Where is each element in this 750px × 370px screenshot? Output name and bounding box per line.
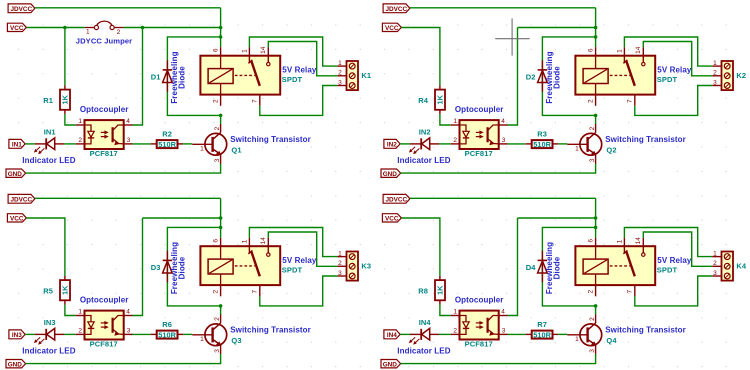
- svg-text:3: 3: [502, 328, 506, 335]
- svg-text:Switching Transistor: Switching Transistor: [230, 326, 311, 335]
- svg-text:Indicator LED: Indicator LED: [22, 156, 75, 165]
- svg-text:2: 2: [588, 99, 595, 103]
- svg-text:Diode: Diode: [178, 66, 187, 89]
- optocoupler phototransistor: [488, 316, 499, 336]
- transistor Q3: [192, 315, 226, 355]
- label SPDT: [657, 75, 678, 84]
- relay pin 1: [616, 238, 624, 247]
- svg-text:JDVCC: JDVCC: [10, 196, 32, 203]
- svg-text:14: 14: [260, 46, 267, 54]
- diode D3 freewheeling: [163, 251, 173, 282]
- transistor Q2 pin 3 (emitter): [589, 158, 596, 162]
- diode D2 freewheeling: [538, 60, 548, 91]
- resistor R3 510R: [526, 140, 559, 148]
- svg-text:6: 6: [588, 239, 595, 243]
- junction JDVCC tie: [219, 26, 223, 30]
- svg-text:PCF817: PCF817: [90, 149, 118, 158]
- optocoupler coupling arrows: [476, 322, 483, 329]
- note JDYCC Jumper: [76, 36, 132, 45]
- transistor Q2 pin 2 (collector): [589, 126, 596, 130]
- value 510R: [158, 330, 176, 339]
- global label IN1: [9, 139, 25, 148]
- note Optocoupler: [80, 296, 129, 305]
- value PCF817: [465, 149, 493, 158]
- relay pin 1: [241, 47, 249, 56]
- wire collector: [220, 115, 222, 124]
- jumper JDYCC pin 2: [110, 25, 123, 36]
- svg-text:VCC: VCC: [10, 25, 24, 32]
- wire collector: [595, 115, 597, 124]
- svg-text:3: 3: [127, 328, 131, 335]
- svg-text:7: 7: [627, 99, 634, 103]
- svg-text:2: 2: [589, 317, 596, 321]
- svg-text:1: 1: [78, 309, 82, 316]
- svg-text:Q1: Q1: [231, 145, 241, 154]
- svg-text:VCC: VCC: [385, 25, 399, 32]
- relay K4 body: [575, 246, 655, 285]
- svg-text:6: 6: [213, 239, 220, 243]
- svg-text:IN2: IN2: [419, 128, 431, 137]
- wire opto pin 3 to R: [133, 333, 151, 335]
- value 1K: [61, 94, 70, 104]
- label K3: [361, 262, 371, 271]
- svg-text:3: 3: [338, 270, 342, 277]
- wire relay pin 14 to K2.2: [643, 42, 712, 76]
- svg-text:IN2: IN2: [387, 142, 397, 149]
- junction coil / collector node: [219, 304, 223, 308]
- label SPDT: [657, 266, 678, 275]
- optocoupler internal LED: [85, 316, 95, 335]
- global label IN2: [384, 139, 400, 148]
- svg-text:SPDT: SPDT: [657, 266, 678, 275]
- wire R to opto pin 1: [440, 114, 451, 125]
- svg-text:K4: K4: [736, 262, 747, 271]
- svg-text:1: 1: [575, 146, 579, 153]
- note Freewheeling Diode: [545, 242, 562, 294]
- svg-text:SPDT: SPDT: [657, 75, 678, 84]
- svg-text:14: 14: [260, 237, 267, 245]
- wire JDVCC drop: [595, 8, 597, 47]
- svg-text:Switching Transistor: Switching Transistor: [605, 326, 686, 335]
- label R7: [537, 320, 547, 329]
- wire R to Q2 base: [558, 143, 567, 145]
- relay coil pin 6: [213, 47, 221, 56]
- wire R to Q1 base: [183, 143, 192, 145]
- svg-text:PCF817: PCF817: [465, 340, 493, 349]
- wire freewheeling diode loop: [167, 37, 220, 116]
- relay pin 7: [627, 95, 635, 106]
- wire relay pin 1 to K2.1: [624, 37, 712, 66]
- resistor R1 1K: [60, 86, 70, 115]
- svg-text:Optocoupler: Optocoupler: [80, 296, 129, 305]
- label R4: [418, 96, 429, 105]
- svg-text:IN3: IN3: [44, 318, 56, 327]
- wire relay pin 14 to K4.2: [643, 232, 712, 266]
- global label VCC: [7, 23, 26, 32]
- wire relay pin 7 to K2.3: [635, 86, 713, 116]
- wire opto pin 4 up: [133, 28, 143, 126]
- svg-text:7: 7: [627, 290, 634, 294]
- wire freewheeling diode loop: [542, 227, 595, 306]
- wire LED to opto pin 2: [439, 333, 451, 335]
- label R5: [43, 287, 53, 296]
- svg-text:3: 3: [338, 79, 342, 86]
- relay K2 body: [575, 56, 655, 95]
- resistor R4 1K: [435, 86, 445, 115]
- value 510R: [158, 140, 176, 149]
- optocoupler internal LED: [85, 125, 95, 144]
- relay pin 7: [252, 285, 260, 296]
- wire LED to opto pin 2: [439, 143, 451, 145]
- note Switching Transistor: [605, 326, 686, 335]
- relay pin 1: [241, 238, 249, 247]
- wire LED to opto pin 2: [64, 143, 76, 145]
- diode D1 freewheeling: [163, 60, 173, 91]
- wire relay pin 1 to K4.1: [624, 228, 712, 257]
- value 1K: [61, 285, 70, 295]
- label IN4 (LED refdes): [419, 318, 432, 327]
- label Q1: [231, 145, 241, 154]
- relay K1 body: [200, 56, 280, 95]
- relay coil pin 2: [588, 285, 596, 296]
- label Q3: [231, 336, 241, 345]
- wire JDVCC drop: [595, 198, 597, 237]
- wire JDVCC drop: [220, 8, 222, 47]
- wire opto VCC link: [143, 217, 221, 219]
- svg-text:R6: R6: [162, 320, 172, 329]
- svg-text:1: 1: [78, 118, 82, 125]
- svg-text:JDYCC Jumper: JDYCC Jumper: [76, 36, 132, 45]
- svg-text:2: 2: [214, 317, 221, 321]
- svg-text:GND: GND: [383, 361, 398, 368]
- optocoupler pin 1: [451, 118, 460, 125]
- wire opto pin 3 to R: [133, 143, 151, 145]
- relay coil pin 2: [588, 95, 596, 106]
- relay coil: [208, 246, 233, 285]
- svg-text:R2: R2: [162, 130, 172, 139]
- LED IN4 indicator: [410, 328, 439, 340]
- note Freewheeling Diode: [545, 51, 562, 103]
- svg-text:2: 2: [117, 29, 121, 36]
- value 1K: [436, 285, 445, 295]
- wire opto pin 4 up: [508, 218, 518, 316]
- optocoupler pin 3: [499, 328, 508, 335]
- label IN1 (LED refdes): [44, 128, 56, 137]
- relay dashed link: [610, 74, 630, 76]
- LED IN2 indicator: [410, 138, 439, 150]
- svg-text:2: 2: [713, 260, 717, 267]
- label R6: [162, 320, 172, 329]
- wire VCC rail right: [123, 27, 220, 29]
- svg-text:Q3: Q3: [231, 336, 241, 345]
- relay dashed link: [235, 265, 255, 267]
- svg-text:3: 3: [127, 137, 131, 144]
- optocoupler PCF817 body: [85, 120, 124, 149]
- svg-text:2: 2: [453, 328, 457, 335]
- LED emission arrows: [34, 147, 44, 154]
- junction relay coil node: [594, 35, 598, 39]
- wire R to Q3 base: [183, 333, 192, 335]
- wire LED to opto pin 2: [64, 333, 76, 335]
- svg-text:JDVCC: JDVCC: [385, 6, 407, 13]
- svg-text:SPDT: SPDT: [282, 266, 303, 275]
- optocoupler coupling arrows: [101, 322, 108, 329]
- optocoupler pin 1: [76, 309, 85, 316]
- connector K3: [337, 250, 358, 280]
- relay switch arm: [623, 56, 634, 86]
- svg-text:R8: R8: [418, 287, 428, 296]
- label K4: [736, 262, 747, 271]
- junction VCC / opto: [141, 26, 145, 30]
- svg-text:2: 2: [589, 126, 596, 130]
- svg-text:6: 6: [213, 48, 220, 52]
- svg-text:PCF817: PCF817: [90, 340, 118, 349]
- wire opto VCC link: [518, 27, 596, 29]
- jumper JDYCC pin 1: [85, 25, 99, 35]
- wire GND rail: [401, 164, 596, 174]
- svg-text:K1: K1: [361, 71, 371, 80]
- note Freewheeling Diode: [170, 51, 187, 103]
- svg-text:2: 2: [338, 260, 342, 267]
- svg-text:4: 4: [501, 118, 505, 125]
- optocoupler pin 2: [76, 328, 85, 335]
- svg-text:2: 2: [453, 137, 457, 144]
- note 5V Relay: [657, 256, 692, 265]
- relay coil: [208, 56, 233, 95]
- svg-text:Optocoupler: Optocoupler: [455, 296, 504, 305]
- LED emission arrows: [34, 337, 44, 344]
- optocoupler pin 2: [76, 137, 85, 144]
- optocoupler coupling arrows: [101, 131, 108, 138]
- global label IN4: [384, 330, 400, 339]
- label R3: [537, 130, 547, 139]
- wire relay pin 7 to K1.3: [260, 86, 338, 116]
- wire freewheeling diode loop: [542, 37, 595, 116]
- relay coil pin 6: [588, 238, 596, 247]
- note Optocoupler: [80, 105, 129, 114]
- svg-text:Q2: Q2: [606, 145, 616, 154]
- svg-text:IN4: IN4: [387, 332, 397, 339]
- svg-text:1: 1: [241, 49, 248, 53]
- optocoupler pin 1: [76, 118, 85, 125]
- note Switching Transistor: [230, 135, 311, 144]
- note Switching Transistor: [230, 326, 311, 335]
- relay switch arm: [623, 246, 634, 276]
- svg-text:1K: 1K: [61, 285, 70, 295]
- svg-text:510R: 510R: [533, 330, 551, 339]
- wire opto pin 4 up: [508, 28, 518, 126]
- svg-text:2: 2: [213, 290, 220, 294]
- note 5V Relay: [282, 65, 317, 74]
- note Optocoupler: [455, 296, 504, 305]
- wire GND rail: [26, 164, 221, 174]
- optocoupler pin 1: [451, 309, 460, 316]
- wire R to opto pin 1: [65, 114, 76, 125]
- svg-text:7: 7: [252, 290, 259, 294]
- note 5V Relay: [657, 65, 692, 74]
- wire VCC to R: [26, 218, 65, 276]
- svg-text:R7: R7: [537, 320, 547, 329]
- svg-text:PCF817: PCF817: [465, 149, 493, 158]
- junction coil / collector node: [219, 114, 223, 118]
- global label IN3: [9, 330, 25, 339]
- transistor Q4 pin 1 (base): [575, 336, 579, 343]
- value 510R: [533, 330, 551, 339]
- LED emission arrows: [409, 147, 419, 154]
- wire JDVCC rail: [35, 197, 221, 199]
- svg-text:1K: 1K: [436, 94, 445, 104]
- wire R to opto pin 1: [65, 305, 76, 316]
- label R8: [418, 287, 428, 296]
- transistor Q1 pin 2 (collector): [214, 126, 221, 130]
- svg-text:5V Relay: 5V Relay: [282, 256, 317, 265]
- wire relay pin 1 to K1.1: [249, 37, 337, 66]
- global label JDVCC: [383, 4, 410, 13]
- LED IN1 indicator: [35, 138, 64, 150]
- label K2: [736, 71, 746, 80]
- svg-text:Diode: Diode: [553, 66, 562, 89]
- svg-text:1K: 1K: [436, 285, 445, 295]
- note Freewheeling Diode: [170, 242, 187, 294]
- label D4: [526, 263, 537, 272]
- optocoupler pin 3: [124, 328, 133, 335]
- wire collector: [220, 306, 222, 315]
- LED IN3 indicator: [35, 328, 64, 340]
- junction relay coil node: [594, 226, 598, 230]
- label R1: [43, 96, 53, 105]
- wire VCC drop to R: [64, 28, 66, 86]
- note 5V Relay: [282, 256, 317, 265]
- transistor Q1: [192, 124, 226, 164]
- wire opto pin 3 to R: [508, 333, 526, 335]
- relay coil pin 2: [213, 95, 221, 106]
- svg-text:3: 3: [214, 349, 221, 353]
- svg-text:R5: R5: [43, 287, 53, 296]
- optocoupler internal LED: [460, 125, 470, 144]
- svg-text:14: 14: [635, 237, 642, 245]
- label Q4: [606, 336, 617, 345]
- svg-text:5V Relay: 5V Relay: [282, 65, 317, 74]
- svg-text:1: 1: [575, 336, 579, 343]
- connector K2: [712, 60, 733, 90]
- svg-text:Switching Transistor: Switching Transistor: [230, 135, 311, 144]
- wire VCC rail left: [26, 27, 84, 29]
- jumper arc: [97, 21, 112, 25]
- resistor R8 1K: [435, 276, 445, 305]
- transistor Q2: [567, 124, 601, 164]
- svg-text:D2: D2: [526, 73, 536, 82]
- transistor Q3 pin 1 (base): [200, 336, 204, 343]
- global label JDVCC: [383, 194, 410, 203]
- svg-text:3: 3: [589, 349, 596, 353]
- optocoupler phototransistor: [113, 125, 124, 145]
- svg-text:R1: R1: [43, 96, 53, 105]
- svg-text:510R: 510R: [158, 330, 176, 339]
- cursor crosshair: [495, 18, 530, 55]
- LED emission arrows: [409, 337, 419, 344]
- transistor Q1 pin 3 (emitter): [214, 158, 221, 162]
- relay contact circle pin 14: [267, 56, 270, 66]
- svg-text:D3: D3: [151, 263, 161, 272]
- wire relay pin 14 to K1.2: [268, 42, 337, 76]
- label K1: [361, 71, 371, 80]
- svg-text:2: 2: [588, 290, 595, 294]
- note Indicator LED: [397, 156, 450, 165]
- optocoupler phototransistor: [488, 125, 499, 145]
- optocoupler pin 2: [451, 137, 460, 144]
- svg-text:Optocoupler: Optocoupler: [80, 105, 129, 114]
- wire IN to LED: [400, 333, 410, 335]
- svg-text:IN1: IN1: [12, 142, 22, 149]
- svg-text:2: 2: [213, 99, 220, 103]
- svg-text:Optocoupler: Optocoupler: [455, 105, 504, 114]
- svg-text:GND: GND: [8, 171, 23, 178]
- svg-text:2: 2: [78, 137, 82, 144]
- svg-text:4: 4: [126, 118, 130, 125]
- note Indicator LED: [22, 347, 75, 356]
- optocoupler PCF817 body: [460, 120, 499, 149]
- relay switch arm: [248, 56, 259, 86]
- global label JDVCC: [8, 4, 35, 13]
- connector K4: [712, 250, 733, 280]
- note Switching Transistor: [605, 135, 686, 144]
- resistor R2 510R: [151, 140, 184, 148]
- wire opto VCC link: [518, 217, 596, 219]
- svg-text:4: 4: [126, 309, 130, 316]
- relay pin 7: [627, 285, 635, 296]
- transistor Q2 pin 1 (base): [575, 146, 579, 153]
- svg-text:4: 4: [501, 309, 505, 316]
- svg-text:1: 1: [338, 60, 342, 67]
- value 510R: [533, 140, 551, 149]
- label SPDT: [282, 75, 303, 84]
- wire R to Q4 base: [558, 333, 567, 335]
- resistor R5 1K: [60, 276, 70, 305]
- junction JDVCC tie: [594, 216, 598, 220]
- label D2: [526, 73, 536, 82]
- value PCF817: [90, 149, 118, 158]
- wire GND rail: [401, 354, 596, 364]
- optocoupler PCF817 body: [460, 311, 499, 340]
- label D1: [151, 73, 161, 82]
- wire JDVCC rail: [410, 7, 596, 9]
- svg-text:R3: R3: [537, 130, 547, 139]
- svg-text:3: 3: [214, 158, 221, 162]
- svg-text:1: 1: [713, 60, 717, 67]
- svg-text:Indicator LED: Indicator LED: [397, 156, 450, 165]
- svg-text:Q4: Q4: [606, 336, 617, 345]
- transistor Q3 pin 3 (emitter): [214, 349, 221, 353]
- svg-text:5V Relay: 5V Relay: [657, 65, 692, 74]
- svg-text:1: 1: [713, 250, 717, 257]
- transistor Q4 pin 3 (emitter): [589, 349, 596, 353]
- relay coil pin 2: [213, 285, 221, 296]
- svg-text:3: 3: [713, 270, 717, 277]
- svg-text:JDVCC: JDVCC: [385, 196, 407, 203]
- global label VCC: [382, 214, 401, 223]
- relay pin 14: [635, 46, 643, 55]
- svg-text:1: 1: [200, 336, 204, 343]
- svg-text:1: 1: [338, 250, 342, 257]
- label IN2 (LED refdes): [419, 128, 431, 137]
- optocoupler pin 3: [499, 137, 508, 144]
- label D3: [151, 263, 161, 272]
- relay coil: [583, 246, 608, 285]
- junction JDVCC tie: [594, 26, 598, 30]
- junction coil / collector node: [594, 304, 598, 308]
- wire opto pin 4 up: [133, 218, 143, 316]
- relay dashed link: [610, 265, 630, 267]
